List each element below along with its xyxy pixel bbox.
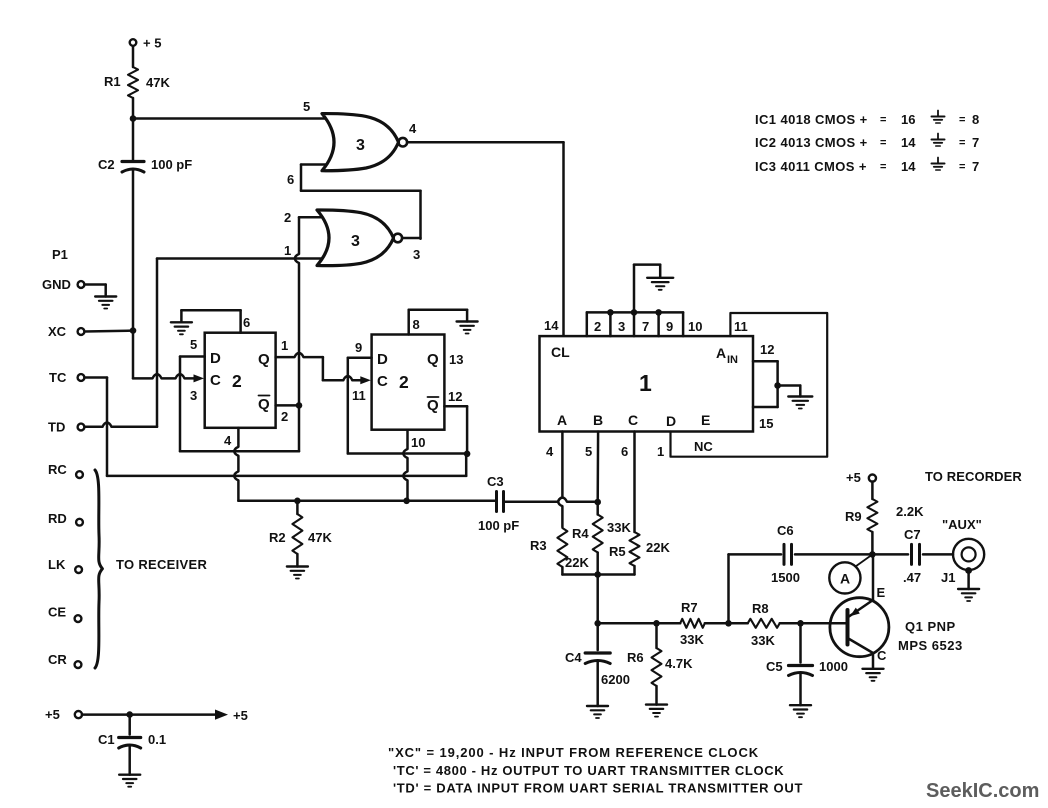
IC1 pin 10 label [688,319,702,334]
NOR gate U3a [322,114,407,171]
svg-text:R6: R6 [627,650,644,665]
svg-text:IC2 4013 CMOS +: IC2 4013 CMOS + [755,135,868,150]
svg-text:C: C [210,372,221,389]
arrow +5 rail [215,708,248,723]
svg-text:3: 3 [356,137,365,154]
FF1 pin 4 label [224,433,232,448]
jack J1 [941,539,984,585]
transistor Q1 [830,585,889,663]
svg-text:+ 5: + 5 [143,36,161,51]
node FF2 Qbar/TC junction [464,451,471,458]
FF1 pin 2 label [281,409,288,424]
svg-text:CL: CL [551,344,570,360]
svg-text:+5: +5 [45,707,60,722]
svg-text:CE: CE [48,605,66,620]
wire XC node down and to FF1 clock [133,331,197,379]
svg-text:=: = [959,161,965,173]
svg-text:47K: 47K [146,75,170,90]
wire FF1 Qbar [276,404,299,407]
pin label 3 (gate2 output) [413,247,420,262]
wire IC1 pin 11 NC loop [671,313,828,457]
svg-text:D: D [377,351,388,368]
clock arrow into FF2 pin C [360,376,371,384]
wire GND pin to ground [84,285,105,297]
svg-text:5: 5 [190,337,197,352]
wire staple bus to ground [634,265,660,313]
brace TO RECEIVER [95,470,102,668]
capacitor C1 [98,715,166,775]
svg-text:7: 7 [642,319,649,334]
svg-text:11: 11 [352,388,366,403]
svg-text:1: 1 [657,444,664,459]
IC1 top pin staples 2,3,7,9 [587,312,683,336]
wire node to NOR gate1 pin 5 [133,117,330,120]
svg-text:E: E [877,585,886,600]
svg-text:10: 10 [688,319,702,334]
wire reset bus [238,500,495,503]
note IC2 power pins [755,134,979,151]
svg-text:A: A [557,412,567,428]
connector label P1 [52,247,68,262]
capacitor C5 [766,623,848,705]
svg-text:5: 5 [585,444,592,459]
svg-text:TO RECEIVER: TO RECEIVER [116,557,208,572]
svg-text:22K: 22K [646,540,670,555]
svg-text:R8: R8 [752,601,769,616]
svg-text:C: C [377,373,388,390]
pin XC [48,324,84,339]
svg-text:E: E [701,412,710,428]
label NC [694,439,713,454]
wire gate1 pin6 to gate2 output [301,165,421,239]
power +5 terminal (bottom left) [45,707,82,722]
svg-text:C1: C1 [98,732,115,747]
svg-text:GND: GND [42,277,71,292]
node pin12/15 junction [774,382,781,389]
svg-text:9: 9 [355,340,362,355]
svg-text:C3: C3 [487,474,504,489]
svg-text:12: 12 [448,389,462,404]
svg-text:=: = [959,137,965,149]
svg-text:R1: R1 [104,74,121,89]
wire FF1 feedback bus (D to Qbar) [180,450,299,453]
wire gate2 output [402,237,420,240]
svg-text:33K: 33K [680,632,704,647]
svg-text:3: 3 [618,319,625,334]
svg-text:14: 14 [901,159,916,174]
svg-text:Q: Q [427,397,439,414]
pin TD [48,420,84,435]
svg-text:NC: NC [694,439,713,454]
svg-text:8: 8 [413,317,420,332]
FF1 pin 6 ground staple [181,310,250,332]
svg-text:TC: TC [49,370,67,385]
wire IC1 pin C down [633,432,636,533]
svg-text:47K: 47K [308,530,332,545]
svg-text:1: 1 [281,338,288,353]
svg-text:SeekIC.com: SeekIC.com [926,780,1039,802]
pin label 1 (gate2) [284,243,291,258]
wire gate2 pin 1 row [157,257,330,260]
wire TD to gate2 pin1 riser [84,259,157,427]
svg-text:2: 2 [232,371,242,391]
svg-text:7: 7 [972,159,979,174]
svg-text:IN: IN [727,354,738,366]
svg-text:4: 4 [409,121,417,136]
pin TC [49,370,84,385]
wire audio node row [598,622,681,625]
wire collector to ground [872,653,875,669]
svg-text:'TD' = DATA INPUT FROM UA: 'TD' = DATA INPUT FROM UART SERIAL TRANS… [393,781,803,796]
svg-text:CR: CR [48,652,67,667]
svg-text:4: 4 [546,444,554,459]
power +5 terminal (right) [846,470,876,485]
svg-text:14: 14 [544,318,559,333]
pin GND [42,277,84,292]
wire +5 to R9 [871,482,874,500]
svg-text:R4: R4 [572,526,589,541]
wire R7 to C6 node [705,622,748,625]
wire +5 to R1 [132,46,135,67]
wire C2 to XC node [132,170,135,331]
wire divider to audio node [596,575,599,624]
svg-text:4: 4 [224,433,232,448]
capacitor C3 [478,474,519,533]
svg-text:C6: C6 [777,523,794,538]
FF2 pin 11 label [352,388,366,403]
node R1/C2/gate1 junction [130,115,137,122]
wire R1 to node [132,98,135,119]
wire emitter up to node [872,554,875,600]
svg-text:R2: R2 [269,530,286,545]
capacitor C2 [98,157,192,172]
svg-text:R7: R7 [681,600,698,615]
pin CE [48,605,81,622]
resistor R6 [627,623,693,704]
svg-text:7: 7 [972,135,979,150]
svg-text:A: A [840,571,850,587]
resistor R8 [748,601,780,648]
svg-text:B: B [593,412,603,428]
pin LK [48,557,82,573]
node C3/R4 junction [594,499,601,506]
wire node down to C2 [132,119,135,162]
wire pins12/15 to ground [778,386,801,397]
wire C6 riser [729,554,782,623]
wire C6 to emitter node [795,553,872,556]
svg-text:C4: C4 [565,650,582,665]
svg-text:33K: 33K [751,633,775,648]
label TO RECORDER [925,469,1022,484]
FF1 pin 3 label [190,388,197,403]
wire divider bottom bus [562,573,634,576]
pin label 4 (gate1 output) [409,121,417,136]
resistor R4 [572,502,631,575]
svg-text:6: 6 [243,315,250,330]
IC1 bottom pin labels 4 5 6 [546,444,628,459]
IC1 pins 12/15 staple [753,342,778,431]
svg-text:12: 12 [760,342,774,357]
resistor R3 [530,528,589,575]
pin 2 stub into gate2 [284,210,334,225]
node C4 junction [594,620,601,627]
svg-text:8: 8 [972,112,979,127]
FF2 pin 12 label [448,389,462,404]
ground (C5) [790,705,811,717]
wire C3 to IC1 pin B [504,498,598,502]
svg-text:6: 6 [287,172,294,187]
svg-text:=: = [880,114,886,126]
resistor R2 [269,501,332,567]
svg-text:13: 13 [449,352,463,367]
wire FF2 feedback bus [348,452,467,455]
note TD [393,781,803,796]
svg-text:R5: R5 [609,544,626,559]
svg-text:6: 6 [621,444,628,459]
label Q1 [898,619,963,653]
svg-text:=: = [959,114,965,126]
svg-text:1: 1 [284,243,291,258]
svg-text:C: C [877,648,887,663]
wire FF1 Q to FF2 clock [276,353,364,380]
svg-text:C5: C5 [766,659,783,674]
resistor R5 [609,532,670,575]
node C5/base junction [797,620,804,627]
wire TC bus (to FF2 Q-bar) [107,454,466,476]
ground (IC1 top pins) [647,278,673,290]
ground (FF2 pin8) [457,322,478,334]
svg-text:"XC" = 19,200 - Hz INPUT F: "XC" = 19,200 - Hz INPUT FROM REFERENCE … [388,745,759,760]
svg-text:R3: R3 [530,538,547,553]
node pin10 junction [403,498,410,505]
resistor R9 [845,499,924,554]
svg-text:33K: 33K [607,520,631,535]
svg-text:"AUX": "AUX" [942,517,982,532]
svg-text:1: 1 [639,370,652,396]
svg-text:100 pF: 100 pF [478,518,519,533]
svg-text:22K: 22K [565,555,589,570]
node divider junction [594,571,601,578]
pin RC [48,462,83,478]
FF2 pin 9 label [355,340,362,355]
svg-text:16: 16 [901,112,915,127]
wire FF2 D loop [348,358,372,454]
wire R8 to base [780,622,847,625]
svg-text:15: 15 [759,416,773,431]
svg-text:2: 2 [399,372,409,392]
svg-text:4.7K: 4.7K [665,656,693,671]
wire FF2 pin 10 down to reset bus [403,430,407,501]
wire IC1 pin A down [558,432,562,528]
svg-text:100 pF: 100 pF [151,157,192,172]
pin CR [48,652,81,668]
ground (R6) [646,705,667,717]
svg-text:P1: P1 [52,247,68,262]
node XC junction [130,327,137,334]
svg-text:11: 11 [734,319,748,334]
logo SeekIC.com [926,780,1039,802]
svg-text:IC3 4011 CMOS +: IC3 4011 CMOS + [755,159,867,174]
svg-text:C2: C2 [98,157,115,172]
svg-text:2: 2 [284,210,291,225]
node emitter junction [869,551,876,558]
ground (C1) [119,775,140,787]
svg-text:TO RECORDER: TO RECORDER [925,469,1022,484]
capacitor C4 [565,623,630,706]
label AUX [942,517,982,532]
FF2 pin 13 label [449,352,463,367]
FF2 pin 8 ground staple [409,310,467,335]
wire gate1 output to IC1 CL [407,142,563,336]
svg-text:XC: XC [48,324,67,339]
wire C7 to J1 [923,553,953,556]
svg-text:=: = [880,161,886,173]
wire +5 rail [82,713,219,716]
svg-text:J1: J1 [941,570,955,585]
svg-text:C: C [628,412,638,428]
wire IC1 pin B down [596,432,599,503]
svg-text:IC1 4018 CMOS +: IC1 4018 CMOS + [755,112,868,127]
svg-text:D: D [666,413,676,429]
svg-text:10: 10 [411,435,425,450]
svg-text:'TC' = 4800 - Hz OUTPUT TO: 'TC' = 4800 - Hz OUTPUT TO UART TRANSMIT… [393,763,784,778]
svg-text:Q: Q [258,396,270,413]
svg-text:3: 3 [190,388,197,403]
svg-text:Q: Q [258,351,270,368]
svg-text:D: D [210,350,221,367]
svg-text:Q: Q [427,351,439,368]
pin label 5 (gate1 input) [303,99,310,114]
clock arrow into FF1 pin C [194,374,205,382]
ground (FF1 pin6) [171,322,192,334]
label A circle [829,557,869,594]
svg-text:=: = [880,137,886,149]
wire TC down to bus [84,378,107,476]
label TO RECEIVER [116,557,208,572]
wire XC to C2 node [84,329,133,332]
resistor R7 [680,600,705,647]
svg-text:5: 5 [303,99,310,114]
svg-text:2.2K: 2.2K [896,504,924,519]
node C1 junction [126,711,133,718]
svg-text:R9: R9 [845,509,862,524]
node gate2/FF1 Qbar junction [296,402,303,409]
note XC [388,745,759,760]
wire gate2 input tie to FF1 Qbar [295,217,299,451]
ground (Q1 collector) [863,669,884,681]
IC U1 box [540,336,754,431]
svg-text:1000: 1000 [819,659,848,674]
ground (IC1 pins 12/15) [788,397,812,409]
flip-flop FF1 box [205,333,276,428]
svg-text:0.1: 0.1 [148,732,166,747]
ground (R2) [287,567,308,579]
wire J1 to ground [967,571,970,590]
svg-text:+5: +5 [233,708,248,723]
wire FF1 D loop [180,357,205,452]
svg-text:A: A [716,345,726,361]
svg-text:Q1 PNP: Q1 PNP [905,619,956,634]
note IC3 power pins [755,158,979,175]
NOR gate U3b [317,210,402,266]
svg-text:RC: RC [48,462,67,477]
IC1 pin 11 label [734,319,748,334]
svg-text:C7: C7 [904,527,921,542]
svg-text:TD: TD [48,420,65,435]
svg-text:9: 9 [666,319,673,334]
svg-text:2: 2 [594,319,601,334]
svg-text:.47: .47 [903,570,921,585]
svg-text:3: 3 [351,233,360,250]
capacitor C6 [771,523,800,585]
pin RD [48,511,83,526]
FF1 pin 5 label [190,337,197,352]
FF1 pin 1 label [281,338,288,353]
node R2 junction [294,498,301,505]
ground (P1 GND) [95,297,116,309]
svg-text:2: 2 [281,409,288,424]
note TC [393,763,784,778]
capacitor C7 [872,527,921,585]
svg-text:RD: RD [48,511,67,526]
svg-text:+5: +5 [846,470,861,485]
node C6 riser junction [725,620,732,627]
node R6 junction [653,620,660,627]
wire FF1 pin 4 down to reset bus [234,428,238,501]
ground (C4) [587,706,608,718]
note IC1 power pins [755,111,979,128]
ground (J1) [958,589,979,601]
svg-text:6200: 6200 [601,672,630,687]
wire FF2 Qbar to bus [444,406,467,454]
power +5 terminal (top left) [130,36,162,51]
FF2 pin 10 label [411,435,425,450]
svg-text:14: 14 [901,135,916,150]
IC1 pin 14 label [544,318,559,333]
node staple junctions [607,309,662,316]
IC1 pin 1 label (bottom) [657,444,664,459]
svg-text:1500: 1500 [771,570,800,585]
pin 6 stub into gate1 [287,165,332,188]
resistor R1 [104,67,170,98]
svg-text:3: 3 [413,247,420,262]
svg-text:MPS 6523: MPS 6523 [898,638,963,653]
flip-flop FF2 box [372,335,445,430]
svg-text:LK: LK [48,557,66,572]
